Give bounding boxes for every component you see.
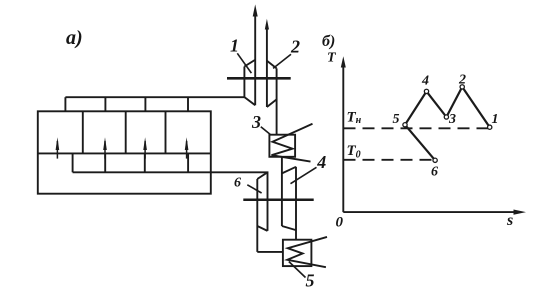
svg-text:3: 3	[251, 112, 261, 132]
svg-text:1: 1	[230, 36, 239, 56]
svg-text:Т: Т	[327, 51, 337, 66]
svg-text:1: 1	[492, 112, 499, 127]
svg-text:6: 6	[431, 165, 438, 180]
svg-text:4: 4	[316, 152, 326, 172]
svg-text:4: 4	[421, 74, 429, 89]
svg-text:3: 3	[448, 112, 456, 127]
svg-text:2: 2	[290, 37, 300, 57]
svg-text:s: s	[506, 212, 513, 229]
svg-text:а): а)	[66, 27, 83, 49]
svg-text:б): б)	[322, 33, 335, 50]
svg-text:5: 5	[306, 271, 315, 291]
svg-text:6: 6	[234, 176, 241, 191]
svg-text:0: 0	[336, 215, 344, 231]
svg-text:2: 2	[458, 73, 466, 88]
svg-text:5: 5	[393, 112, 400, 127]
